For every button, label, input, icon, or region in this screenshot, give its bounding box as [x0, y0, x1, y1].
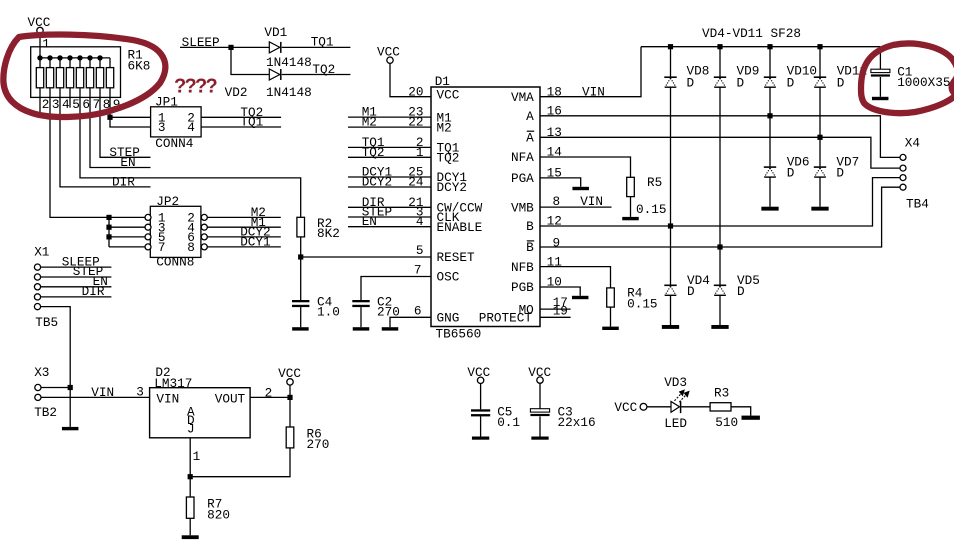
wire VD4-VD11 top bus	[641, 44, 880, 49]
svg-text:GNG: GNG	[437, 311, 460, 326]
wire net B D1 pin 12	[540, 178, 900, 229]
ground D1 GNG	[382, 327, 399, 330]
svg-text:DIR: DIR	[82, 284, 105, 299]
svg-text:LED: LED	[664, 416, 687, 431]
wire X1 pin 5 to ground	[41, 307, 70, 427]
wire net RESET D1 pin 5	[298, 237, 431, 300]
svg-text:TB4: TB4	[906, 197, 929, 212]
svg-text:510: 510	[715, 415, 738, 430]
svg-text:VD2: VD2	[225, 85, 248, 100]
wire R1 pin 4 net DIR	[60, 97, 151, 189]
ground R4	[602, 327, 619, 330]
svg-text:6: 6	[414, 303, 422, 318]
svg-text:D: D	[787, 166, 795, 181]
connector JP1 CONN4	[151, 94, 202, 151]
resistor R5 0.15	[627, 175, 667, 217]
wire VD4 anode to ground	[670, 295, 672, 325]
resistor network R1 6K8	[31, 47, 151, 112]
svg-text:VCC: VCC	[278, 366, 301, 381]
svg-text:M2: M2	[362, 115, 377, 130]
svg-text:STEP: STEP	[109, 145, 139, 160]
svg-text:11: 11	[547, 254, 562, 269]
wire net A-bar D1 pin 13	[540, 125, 900, 168]
svg-text:6: 6	[82, 97, 90, 112]
svg-text:DCY2: DCY2	[362, 175, 392, 190]
wire net VIN D1 VMA pin 18	[540, 47, 641, 100]
wire VD9 anode to net B-bar	[719, 87, 721, 247]
wire VD5 anode to ground	[719, 295, 721, 325]
svg-text:0.1: 0.1	[497, 415, 520, 430]
svg-text:D: D	[836, 166, 844, 181]
wire R1 pin 6 to R2	[80, 97, 301, 217]
wire D1 net TQ2 pin 1	[348, 145, 431, 160]
wire R4 to ground	[610, 307, 612, 327]
svg-text:5: 5	[72, 97, 80, 112]
svg-text:DCY1: DCY1	[240, 235, 270, 250]
ground VD5	[711, 325, 728, 329]
svg-text:NFB: NFB	[511, 260, 534, 275]
diode VD9	[714, 47, 760, 91]
svg-text:B: B	[526, 240, 534, 255]
svg-text:A: A	[526, 131, 534, 146]
wire net TQ1 from VD1	[282, 35, 351, 50]
power flag VCC R1	[28, 15, 51, 58]
svg-text:19: 19	[553, 303, 568, 318]
svg-text:VOUT: VOUT	[215, 392, 246, 407]
regulator D2 LM317	[150, 365, 251, 438]
svg-text:TQ1: TQ1	[311, 35, 334, 50]
net label VD4-VD11 SF28	[702, 26, 801, 41]
svg-text:VD1: VD1	[264, 25, 287, 40]
power flag VCC D1 pin 20	[377, 45, 431, 100]
svg-text:13: 13	[547, 125, 562, 140]
svg-text:20: 20	[408, 84, 423, 99]
svg-text:VCC: VCC	[528, 365, 551, 380]
ground C3	[531, 437, 548, 440]
svg-text:X3: X3	[34, 365, 49, 380]
svg-text:3: 3	[52, 97, 60, 112]
wire C2 to ground	[360, 307, 362, 327]
svg-text:OSC: OSC	[437, 270, 460, 285]
ground R7	[182, 535, 199, 539]
wire net A D1 pin 16	[540, 104, 900, 158]
wire X1 net STEP	[41, 264, 112, 279]
wire R1 pin 5 stub	[69, 97, 71, 107]
svg-text:DIR: DIR	[112, 175, 135, 190]
svg-text:LM317: LM317	[154, 376, 192, 391]
svg-text:DCY2: DCY2	[437, 180, 467, 195]
svg-text:NFA: NFA	[511, 150, 534, 165]
svg-text:14: 14	[547, 145, 562, 160]
wire D1 net TQ1 pin 2	[348, 135, 431, 150]
connector X4 TB4	[900, 136, 929, 212]
svg-text:4: 4	[62, 97, 70, 112]
svg-text:1N4148: 1N4148	[266, 85, 312, 100]
wire VD7 anode to ground	[819, 177, 821, 207]
svg-text:CONN4: CONN4	[155, 136, 193, 151]
wire VD6 anode to ground	[769, 177, 771, 207]
power flag VCC LED	[614, 400, 646, 415]
svg-text:TQ2: TQ2	[437, 151, 460, 166]
svg-text:15: 15	[547, 165, 562, 180]
svg-text:1000X35: 1000X35	[897, 75, 950, 90]
net SLEEP wire	[180, 35, 269, 74]
svg-text:VIN: VIN	[582, 84, 605, 99]
svg-text:5: 5	[416, 243, 424, 258]
svg-text:D: D	[687, 76, 695, 91]
wire R1 pin 9 to JP1	[107, 97, 150, 127]
svg-text:D: D	[837, 76, 845, 91]
svg-text:22: 22	[408, 115, 423, 130]
diode VD10	[764, 47, 817, 91]
svg-text:VCC: VCC	[28, 15, 51, 30]
svg-text:D: D	[687, 284, 695, 299]
wire X1 net EN	[41, 274, 112, 289]
svg-text:7: 7	[158, 240, 166, 255]
svg-text:PGA: PGA	[511, 171, 534, 186]
wire R3 to ground	[731, 407, 751, 416]
ground PGA	[572, 187, 589, 190]
diode VD6	[764, 116, 810, 181]
svg-text:820: 820	[207, 508, 230, 523]
svg-text:J: J	[187, 422, 195, 437]
wire net NFB D1 pin 11	[540, 254, 611, 288]
wire JP1 pin 2 net TQ2	[201, 105, 281, 120]
resistor R4 0.15	[607, 285, 658, 311]
svg-text:7: 7	[93, 97, 101, 112]
svg-text:7: 7	[414, 263, 422, 278]
svg-text:R5: R5	[647, 175, 662, 190]
wire net VIN D1 VMB pin 8	[540, 194, 612, 209]
svg-text:4: 4	[187, 120, 195, 135]
svg-text:6K8: 6K8	[128, 58, 151, 73]
wire VD8 anode to net B	[670, 87, 672, 226]
wire X1 net SLEEP	[41, 254, 112, 269]
svg-text:RESET: RESET	[437, 250, 475, 265]
svg-text:VCC: VCC	[437, 88, 460, 103]
wire R6 to ADJ node	[190, 448, 290, 477]
svg-text:1.0: 1.0	[317, 305, 340, 320]
svg-text:16: 16	[547, 104, 562, 119]
connector X1 TB5	[34, 244, 58, 330]
svg-text:VD3: VD3	[664, 375, 687, 390]
wire D1 net DCY1 pin 25	[348, 165, 431, 180]
svg-text:VMA: VMA	[511, 90, 534, 105]
svg-text:18: 18	[547, 84, 562, 99]
diode VD11	[814, 47, 867, 91]
svg-text:TQ2: TQ2	[362, 145, 385, 160]
svg-text:A: A	[526, 109, 534, 124]
capacitor C1 1000X35	[871, 47, 951, 97]
ground PGB	[572, 296, 589, 299]
svg-text:0.15: 0.15	[636, 202, 666, 217]
wire C4 to ground	[300, 307, 302, 327]
svg-text:ENABLE: ENABLE	[437, 220, 483, 235]
wire net VIN X3 to D2	[41, 384, 150, 400]
wire net NFA D1 pin 14	[540, 145, 631, 178]
svg-text:D: D	[787, 76, 795, 91]
wire D1 net STEP pin 3	[348, 205, 431, 220]
power flag VCC D2 VOUT	[278, 366, 301, 398]
svg-text:D: D	[737, 284, 745, 299]
wire VCC to VD3	[647, 406, 671, 408]
svg-text:VCC: VCC	[614, 400, 637, 415]
wire D1 net M2 pin 22	[348, 115, 431, 130]
wire JP2 pin 2 net M2	[207, 205, 280, 220]
svg-text:EN: EN	[362, 214, 377, 229]
connector JP2 CONN8	[145, 194, 207, 270]
svg-text:????: ????	[174, 76, 218, 98]
wire JP2 pin 6 net DCY2	[207, 225, 280, 240]
wire R1 pin 7 net EN	[90, 97, 151, 170]
resistor R3 510	[710, 386, 738, 430]
op-amp/IC D1 TB6560	[431, 74, 540, 342]
wire D2 VOUT pin 2	[250, 386, 293, 428]
wire X3 pin 1 to ground line	[41, 385, 73, 390]
svg-text:X1: X1	[34, 244, 49, 259]
svg-text:X4: X4	[905, 136, 920, 151]
svg-text:0.15: 0.15	[627, 296, 657, 311]
resistor R7 820	[186, 496, 230, 522]
svg-text:VIN: VIN	[91, 385, 114, 400]
svg-text:TB6560: TB6560	[436, 327, 482, 342]
ground VD4	[662, 325, 679, 329]
svg-text:VCC: VCC	[377, 45, 400, 60]
svg-text:3: 3	[158, 120, 166, 135]
svg-text:8: 8	[553, 194, 561, 209]
wire R5 to ground	[630, 197, 632, 217]
ground X1/X3	[62, 427, 78, 430]
diode VD8	[664, 47, 709, 91]
wire JP2 pin 8 net DCY1	[207, 235, 280, 250]
ground C2	[353, 327, 370, 330]
ground VD6	[761, 207, 778, 211]
wire net OSC D1 pin 7	[361, 263, 431, 301]
svg-text:D: D	[737, 76, 745, 91]
wire VD11 anode to net A-bar	[819, 87, 821, 137]
svg-text:TQ1: TQ1	[240, 115, 263, 130]
power flag VCC C3	[528, 365, 551, 409]
diode VD2 1N4148	[225, 69, 312, 100]
wire VD3 to R3	[681, 406, 710, 408]
svg-text:1: 1	[42, 36, 50, 51]
svg-text:22x16: 22x16	[558, 415, 596, 430]
svg-text:4: 4	[416, 214, 424, 229]
svg-text:TB5: TB5	[35, 315, 58, 330]
diode VD1 1N4148	[264, 25, 311, 70]
ground C4	[292, 327, 309, 330]
annotation ????	[174, 76, 218, 98]
wire C3 to ground	[539, 416, 541, 436]
svg-text:24: 24	[408, 175, 423, 190]
ground C1	[872, 97, 889, 100]
svg-text:2: 2	[265, 386, 273, 401]
ground R3	[742, 416, 760, 420]
wire R1 pins 2,3 to JP2	[40, 97, 145, 247]
ground VD7	[811, 207, 828, 211]
ground R5	[622, 217, 639, 220]
svg-text:JP2: JP2	[156, 194, 179, 209]
wire D2 ADJ pin 1	[188, 438, 201, 497]
wire net MO D1 pin 17	[540, 295, 571, 310]
svg-text:CONN8: CONN8	[156, 255, 194, 270]
svg-text:8: 8	[187, 240, 195, 255]
wire VD10 anode to net A	[769, 87, 771, 116]
capacitor C4 1.0	[292, 295, 340, 320]
svg-text:270: 270	[307, 437, 330, 452]
wire R1 pin 8 net STEP	[100, 97, 151, 160]
svg-text:1: 1	[416, 145, 424, 160]
diode VD5	[714, 247, 760, 299]
wire D1 net DIR pin 21	[348, 195, 431, 210]
svg-text:VD4-VD11 SF28: VD4-VD11 SF28	[702, 26, 801, 41]
wire D1 GNG pin 6 to ground	[390, 303, 431, 327]
wire JP2 pin 4 net M1	[207, 215, 280, 230]
LED VD3	[664, 375, 689, 431]
wire net PGA D1 pin 15	[540, 165, 581, 187]
wire C5 to ground	[480, 416, 482, 436]
wire JP1 pin 4 net TQ1	[201, 115, 281, 130]
svg-text:12: 12	[547, 213, 562, 228]
svg-text:TQ2: TQ2	[312, 62, 335, 77]
wire net PROTECT D1 pin 19	[540, 303, 571, 318]
annotation red circle around R1	[3, 35, 165, 117]
svg-text:VCC: VCC	[467, 365, 490, 380]
svg-text:B: B	[526, 219, 534, 234]
wire X1 net DIR	[41, 284, 112, 299]
wire D1 net DCY2 pin 24	[348, 175, 431, 190]
resistor R2 8K2	[297, 216, 340, 241]
wire R7 to ground	[189, 518, 191, 535]
wire D1 net M1 pin 23	[348, 105, 431, 120]
svg-text:TB2: TB2	[34, 405, 57, 420]
svg-text:3: 3	[136, 384, 144, 399]
svg-text:PGB: PGB	[511, 280, 534, 295]
svg-text:1N4148: 1N4148	[266, 55, 312, 70]
svg-text:R3: R3	[714, 386, 729, 401]
svg-text:1: 1	[193, 449, 201, 464]
svg-text:2: 2	[42, 97, 50, 112]
svg-text:MO: MO	[519, 302, 534, 317]
capacitor C2 270	[352, 295, 400, 320]
svg-text:8K2: 8K2	[317, 226, 340, 241]
ground C5	[472, 437, 489, 440]
svg-text:VIN: VIN	[580, 194, 603, 209]
power flag VCC C5	[467, 365, 490, 410]
wire net PGB D1 pin 10	[540, 275, 580, 296]
svg-text:VIN: VIN	[156, 392, 179, 407]
svg-text:M2: M2	[437, 120, 452, 135]
resistor R6 270	[286, 426, 329, 452]
svg-text:10: 10	[547, 275, 562, 290]
capacitor C3 22x16	[530, 405, 595, 430]
annotation red circle around C1	[861, 43, 954, 113]
capacitor C5 0.1	[471, 405, 520, 430]
diode VD4	[664, 226, 710, 299]
wire net B-bar D1 pin 9	[540, 187, 900, 250]
svg-text:VMB: VMB	[511, 200, 534, 215]
connector X3 TB2	[34, 365, 57, 420]
diode VD7	[814, 137, 859, 180]
wire net TQ2 from VD2	[282, 62, 351, 77]
svg-text:9: 9	[553, 235, 561, 250]
wire D1 net EN pin 4	[348, 214, 431, 229]
